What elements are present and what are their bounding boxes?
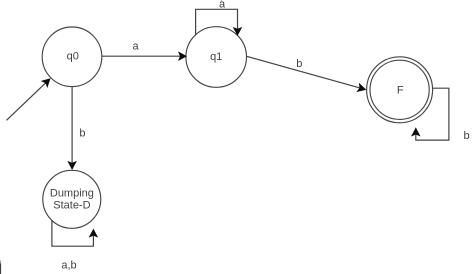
self-loop on F, wire [412, 88, 449, 140]
svg-text:b: b [296, 58, 302, 70]
svg-text:F: F [397, 85, 404, 97]
self-loop on Dumping State-D, wire [52, 220, 97, 246]
state q0 [42, 27, 102, 87]
left-edge artifact mark [0, 264, 1, 274]
svg-text:a: a [133, 41, 140, 53]
svg-text:a,b: a,b [61, 260, 76, 272]
svg-text:b: b [79, 127, 85, 139]
svg-text:q0: q0 [67, 51, 79, 63]
self-loop on q1, wire [196, 9, 242, 35]
svg-text:State-D: State-D [53, 199, 90, 211]
edge q0 -> Dumping State-D, wire [68, 87, 75, 169]
svg-text:Dumping: Dumping [50, 187, 94, 199]
initial-state arrow into q0 [7, 79, 50, 120]
svg-text:a: a [219, 0, 226, 11]
state q1 [186, 27, 247, 88]
state F (accepting, double circle) [367, 57, 433, 123]
edge q0 -> q1, wire [102, 53, 186, 60]
label-anchor artifact above a [221, 0, 222, 2]
edge q1 -> F, wire [247, 56, 366, 91]
state Dumping State-D [43, 170, 101, 228]
svg-text:q1: q1 [210, 51, 222, 63]
svg-text:b: b [463, 130, 469, 142]
